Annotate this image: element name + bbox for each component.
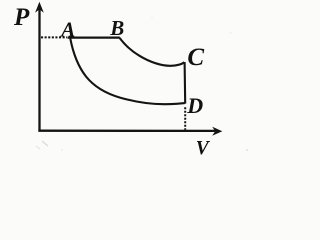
- svg-text:D: D: [186, 93, 203, 118]
- svg-text:P: P: [13, 4, 30, 31]
- line C-D: [184, 62, 187, 104]
- svg-text:V: V: [196, 138, 211, 159]
- P axis (vertical): [35, 2, 44, 132]
- svg-text:B: B: [109, 16, 124, 40]
- svg-text:A: A: [59, 17, 75, 41]
- svg-text:C: C: [187, 44, 204, 71]
- curve B-C: [119, 38, 184, 66]
- dotted line from P axis to A: [41, 36, 67, 38]
- scan smudge bottom-left: [36, 17, 248, 151]
- isobar line A-B: [68, 36, 120, 38]
- curve A-D: [70, 39, 185, 105]
- V axis (horizontal): [38, 127, 222, 136]
- dotted line D to V axis: [184, 107, 186, 130]
